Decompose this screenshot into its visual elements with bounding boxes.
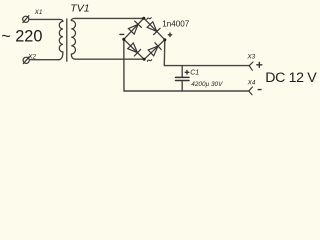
diode VD3 upper-right [147, 22, 160, 35]
svg-text:4200µ 30V: 4200µ 30V [191, 81, 223, 88]
junction dot bridge left corner [122, 38, 125, 41]
minus mark at X4 [258, 89, 261, 91]
plus mark at bridge right corner [168, 33, 171, 36]
junction dot bridge bottom corner [143, 58, 146, 61]
positive wire: bridge right corner down and right to X3 [164, 40, 249, 66]
diode VD2 lower-left [128, 43, 141, 56]
capacitor C1 lead top [181, 66, 183, 77]
terminal X2 [23, 57, 29, 64]
wire secondary bottom to bridge bottom corner [75, 58, 144, 60]
svg-text:DC 12 V: DC 12 V [265, 70, 317, 86]
svg-text:X2: X2 [27, 53, 36, 60]
capacitor C1 lead bottom [181, 81, 183, 91]
diode VD1 upper-left [128, 21, 141, 34]
svg-text:X3: X3 [246, 53, 255, 60]
diode VD4 lower-right [148, 43, 161, 56]
wire X1 to transformer primary top [29, 18, 59, 20]
minus mark at bridge left corner [120, 33, 124, 35]
negative wire: bridge left corner down and right to X4 [124, 39, 249, 91]
plus mark at X3 [257, 62, 262, 67]
capacitor C1 plates [176, 76, 190, 78]
capacitor plus polarity mark [185, 71, 189, 75]
wire X2 to transformer primary bottom [29, 59, 59, 61]
ac tilde at bridge top corner [147, 18, 151, 20]
svg-text:1n4007: 1n4007 [162, 19, 190, 28]
transformer T V1 primary winding [59, 19, 63, 59]
svg-text:~ 220: ~ 220 [1, 28, 42, 46]
transformer core [66, 19, 68, 61]
svg-text:X4: X4 [247, 80, 256, 87]
wire secondary top to bridge top corner [75, 17, 144, 19]
svg-text:C1: C1 [190, 69, 199, 76]
terminal X3 chevron [249, 62, 253, 70]
svg-text:TV1: TV1 [70, 3, 89, 15]
transformer secondary winding [71, 18, 75, 59]
svg-text:X1: X1 [34, 9, 43, 16]
ac tilde at bridge bottom corner [147, 60, 151, 62]
junction dot bridge top corner [142, 17, 145, 20]
bridge diamond sides [124, 18, 165, 59]
junction dot bridge right corner [163, 38, 166, 41]
terminal X1 [23, 16, 29, 23]
terminal X4 chevron [249, 87, 253, 95]
